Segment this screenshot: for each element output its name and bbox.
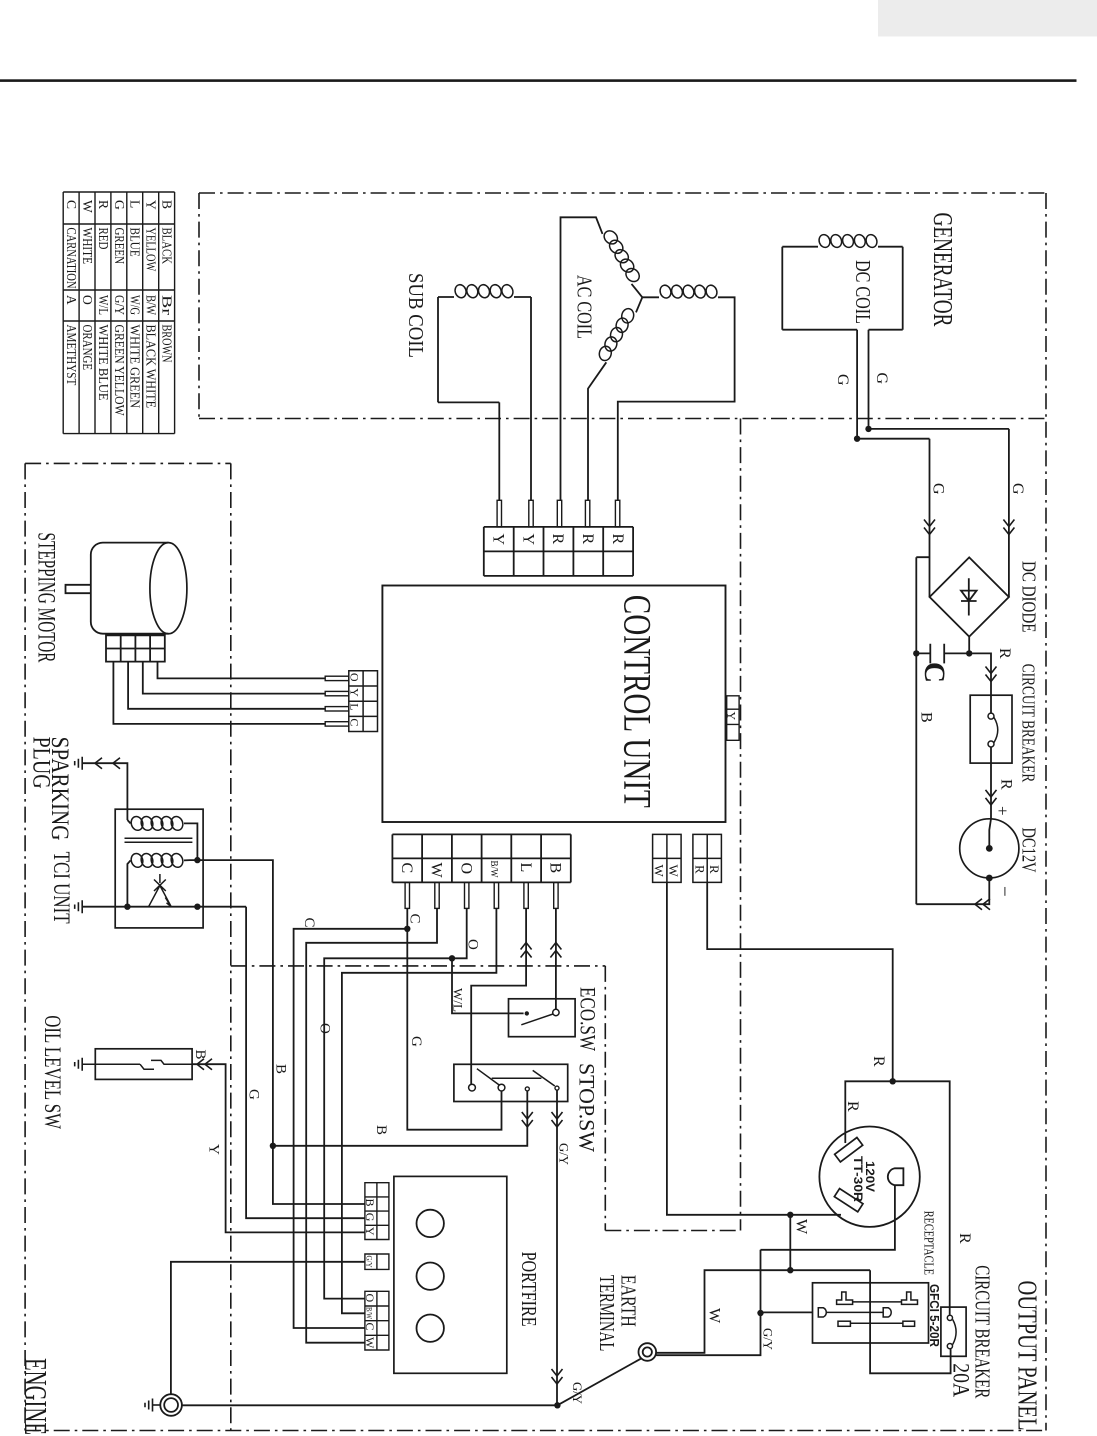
svg-text:W: W bbox=[706, 1308, 723, 1324]
wire color legend table grid bbox=[63, 192, 174, 434]
svg-text:G: G bbox=[929, 483, 946, 495]
inductor ac coil winding 3 bbox=[620, 307, 635, 324]
svg-text:BLUE: BLUE bbox=[128, 228, 143, 257]
svg-text:PORTFIRE: PORTFIRE bbox=[517, 1252, 541, 1327]
header rule bbox=[0, 79, 1077, 82]
svg-text:L: L bbox=[128, 200, 143, 208]
svg-text:B/W: B/W bbox=[144, 295, 159, 315]
svg-text:C: C bbox=[918, 662, 951, 683]
oil level sw ground bbox=[75, 1058, 83, 1071]
svg-text:AC COIL: AC COIL bbox=[573, 275, 596, 339]
wire bridge to breaker bbox=[969, 653, 991, 713]
svg-text:C: C bbox=[301, 918, 317, 928]
wire W down bbox=[789, 1215, 791, 1270]
junction bbox=[449, 955, 455, 961]
gfci slot rect bbox=[838, 1321, 850, 1326]
svg-text:20A: 20A bbox=[949, 1363, 974, 1397]
gfci D link bbox=[826, 1311, 883, 1313]
legend table text bbox=[64, 200, 175, 416]
wire B to eco switch bbox=[555, 908, 557, 1009]
wire star point to winding 3 bbox=[636, 297, 642, 312]
svg-text:RECEPTACLE: RECEPTACLE bbox=[921, 1211, 936, 1275]
svg-text:Y: Y bbox=[144, 200, 159, 210]
junction bbox=[194, 857, 200, 863]
breaker contact bbox=[988, 713, 994, 719]
ac coil winding 2 lead wire bbox=[618, 297, 735, 500]
oil level sw box bbox=[95, 1049, 192, 1080]
stop switch box bbox=[454, 1064, 568, 1101]
wire R hot bbox=[707, 882, 893, 1081]
breaker contact bbox=[988, 741, 994, 747]
engine ground terminal bbox=[160, 1394, 182, 1416]
svg-text:CARNATION: CARNATION bbox=[64, 228, 79, 289]
breaker 20A box bbox=[941, 1307, 966, 1356]
svg-text:CIRCUIT BREAKER: CIRCUIT BREAKER bbox=[1018, 664, 1038, 782]
junction bbox=[194, 904, 200, 910]
breaker arc bbox=[953, 1320, 956, 1345]
junction bbox=[865, 426, 871, 432]
breaker arc bbox=[994, 718, 998, 743]
junction bbox=[787, 1267, 793, 1273]
svg-text:R: R bbox=[549, 534, 566, 545]
engine block border bbox=[25, 463, 231, 1430]
svg-text:R: R bbox=[996, 648, 1013, 659]
connector Y (right side) bbox=[727, 696, 739, 741]
svg-text:R: R bbox=[844, 1101, 861, 1112]
wire O bbox=[324, 908, 467, 1298]
sub coil box bbox=[438, 297, 531, 500]
wire bridge output bbox=[968, 637, 970, 654]
bottom dash-dot border bbox=[25, 1430, 1046, 1432]
dc circuit breaker box bbox=[970, 695, 1012, 763]
svg-text:L: L bbox=[517, 863, 534, 873]
svg-text:A: A bbox=[64, 295, 79, 305]
sparking plug wire bbox=[82, 763, 127, 820]
earth terminal bbox=[639, 1343, 657, 1361]
wire R to receptacle and breaker bbox=[845, 1081, 949, 1315]
portfire hole bbox=[417, 1263, 444, 1290]
gfci slot T bbox=[837, 1292, 853, 1304]
svg-text:R: R bbox=[692, 865, 707, 874]
svg-text:Y: Y bbox=[206, 1144, 222, 1155]
svg-text:EARTH: EARTH bbox=[617, 1275, 641, 1327]
svg-text:O: O bbox=[363, 1294, 377, 1303]
tci primary coil bbox=[129, 815, 144, 832]
wire G right to bridge bbox=[1008, 429, 1010, 597]
wire receptacle ground bbox=[761, 1185, 895, 1250]
eco switch contact bbox=[553, 1009, 559, 1015]
svg-text:O: O bbox=[457, 863, 474, 875]
engine ground symbol bbox=[145, 1399, 153, 1412]
stop switch lever bbox=[477, 1069, 499, 1085]
svg-text:G: G bbox=[246, 1089, 262, 1100]
arrow bbox=[924, 520, 935, 535]
svg-text:BROWN: BROWN bbox=[160, 325, 175, 363]
wire G left to bridge bbox=[929, 439, 931, 597]
svg-text:C: C bbox=[398, 863, 415, 874]
junction bbox=[554, 1402, 560, 1408]
stop switch contact bbox=[498, 1084, 505, 1091]
ac coil winding 3 lead wire bbox=[588, 362, 606, 500]
svg-text:B: B bbox=[273, 1064, 289, 1074]
wire dc12v negative bbox=[916, 878, 989, 904]
label SPARKING PLUG bbox=[28, 737, 76, 841]
svg-text:WHITE BLUE: WHITE BLUE bbox=[96, 325, 111, 401]
connector OBWCW box bbox=[365, 1291, 389, 1350]
svg-text:G: G bbox=[112, 200, 127, 210]
svg-text:DC COIL: DC COIL bbox=[851, 260, 874, 324]
connector YYRRR box bbox=[484, 527, 633, 576]
stop switch contact bbox=[469, 1084, 476, 1091]
stepping motor wires bbox=[113, 662, 325, 724]
junction bbox=[890, 1078, 896, 1084]
svg-text:Y: Y bbox=[363, 1227, 377, 1236]
svg-text:YELLOW: YELLOW bbox=[144, 228, 159, 272]
wire dc coil right G bbox=[869, 330, 1009, 429]
arrow bbox=[521, 943, 532, 958]
svg-text:GREEN YELLOW: GREEN YELLOW bbox=[112, 325, 127, 416]
svg-text:G/Y: G/Y bbox=[365, 1256, 375, 1268]
svg-text:PLUG: PLUG bbox=[28, 737, 57, 789]
connector GY box bbox=[365, 1254, 389, 1269]
svg-text:R: R bbox=[956, 1233, 973, 1244]
switch block border bbox=[231, 419, 741, 1231]
dc coil box bbox=[782, 247, 902, 330]
svg-text:SUB COIL: SUB COIL bbox=[404, 273, 427, 358]
breaker contact bbox=[947, 1344, 952, 1349]
svg-text:W/L: W/L bbox=[451, 988, 466, 1012]
svg-text:ENGINE: ENGINE bbox=[18, 1358, 53, 1435]
svg-text:TERMINAL: TERMINAL bbox=[595, 1275, 619, 1352]
sparking plug ground bbox=[75, 757, 83, 770]
arrow bbox=[197, 1059, 212, 1070]
stop switch contact bbox=[555, 1086, 559, 1090]
svg-text:B: B bbox=[918, 712, 935, 723]
svg-text:B/W: B/W bbox=[488, 861, 500, 879]
tci ground wire bbox=[82, 906, 246, 908]
svg-text:OUTPUT PANEL: OUTPUT PANEL bbox=[1013, 1281, 1043, 1431]
svg-text:GREEN: GREEN bbox=[112, 228, 127, 265]
dc12v outlet circle bbox=[960, 819, 1019, 878]
svg-text:ORANGE: ORANGE bbox=[80, 325, 95, 371]
arrow bbox=[986, 790, 997, 805]
tci secondary leads bbox=[127, 860, 197, 907]
svg-text:G: G bbox=[834, 374, 851, 386]
svg-text:WHITE GREEN: WHITE GREEN bbox=[128, 325, 143, 409]
svg-text:W/G: W/G bbox=[128, 295, 143, 315]
gfci T link bbox=[853, 1301, 902, 1303]
svg-text:AMETHYST: AMETHYST bbox=[64, 325, 79, 386]
wire G tci to portfire bbox=[246, 907, 365, 1218]
junction bbox=[854, 436, 860, 442]
connector OYLC box bbox=[349, 671, 378, 732]
eco switch lever bbox=[521, 1014, 553, 1025]
capacitor C bbox=[916, 644, 969, 664]
wire neutral run bbox=[656, 1270, 870, 1353]
wire C to stop switch bbox=[407, 929, 501, 1130]
breaker contact bbox=[947, 1315, 952, 1320]
wire W/L to eco switch bbox=[452, 958, 524, 1013]
tci trigger symbol bbox=[149, 874, 172, 907]
connector BGY box bbox=[365, 1183, 389, 1240]
junction bbox=[966, 650, 972, 656]
wire winding1 to star point bbox=[632, 284, 643, 297]
motor shaft bbox=[66, 585, 91, 593]
arrow bbox=[975, 899, 990, 910]
svg-text:G/Y: G/Y bbox=[761, 1328, 776, 1351]
wire G/Y from stop switch bbox=[556, 1090, 558, 1405]
svg-text:GENERATOR: GENERATOR bbox=[928, 213, 958, 327]
svg-text:G/Y: G/Y bbox=[557, 1143, 572, 1166]
connector RR bbox=[693, 834, 722, 882]
portfire hole bbox=[417, 1315, 444, 1342]
arrow bbox=[113, 758, 120, 769]
svg-text:GFCI 5-20R: GFCI 5-20R bbox=[927, 1284, 942, 1348]
wire G/Y earth bbox=[656, 1250, 760, 1355]
connector WW bbox=[653, 834, 682, 882]
wire into dc12v bbox=[989, 819, 991, 849]
wire W bbox=[306, 908, 437, 1342]
eco switch box bbox=[509, 999, 576, 1037]
engine ground stub bbox=[153, 1404, 161, 1406]
svg-text:WHITE: WHITE bbox=[80, 228, 95, 265]
svg-text:DC12V: DC12V bbox=[1017, 828, 1039, 873]
receptacle circle bbox=[819, 1127, 919, 1227]
svg-text:R: R bbox=[998, 779, 1015, 790]
svg-text:G/Y: G/Y bbox=[570, 1382, 585, 1405]
svg-text:B/W: B/W bbox=[365, 1307, 375, 1319]
wire neutral to breaker bbox=[870, 1270, 951, 1373]
connector CWOBWLB pins bbox=[405, 882, 558, 908]
connector CWOBWLB box bbox=[392, 834, 570, 882]
oil level switch bbox=[82, 1060, 192, 1069]
wire B tci to portfire bbox=[197, 860, 365, 1204]
svg-text:ECO.SW: ECO.SW bbox=[576, 987, 601, 1051]
wire breaker to dc12v bbox=[990, 747, 992, 819]
stop switch lever bbox=[533, 1070, 555, 1086]
generator block border bbox=[199, 193, 1046, 419]
wire GY to engine ground bbox=[171, 1262, 365, 1394]
eco switch pole bbox=[525, 1011, 529, 1015]
wire W neutral bbox=[667, 882, 841, 1214]
tci core bbox=[125, 838, 193, 842]
svg-text:W: W bbox=[363, 1337, 377, 1349]
svg-text:W/L: W/L bbox=[96, 295, 111, 315]
svg-text:BLACK: BLACK bbox=[160, 228, 175, 265]
svg-text:C: C bbox=[407, 914, 423, 924]
stop switch contact bbox=[525, 1087, 529, 1091]
wire gfci ground lead bbox=[761, 1311, 813, 1313]
svg-text:STOP.SW: STOP.SW bbox=[575, 1063, 600, 1152]
svg-text:CONTROL UNIT: CONTROL UNIT bbox=[615, 595, 659, 808]
svg-text:TT-30R: TT-30R bbox=[851, 1156, 865, 1202]
svg-text:B: B bbox=[192, 1050, 208, 1060]
svg-text:DC DIODE: DC DIODE bbox=[1017, 561, 1039, 633]
svg-text:B: B bbox=[373, 1125, 389, 1135]
arrow bbox=[1003, 520, 1014, 535]
svg-text:W: W bbox=[428, 863, 445, 879]
engine ground bus bbox=[182, 1404, 558, 1406]
right page dash-dot border bbox=[1045, 193, 1047, 1431]
arrow bbox=[550, 943, 561, 958]
svg-text:C: C bbox=[363, 1323, 377, 1331]
svg-text:OIL LEVEL SW: OIL LEVEL SW bbox=[40, 1015, 65, 1129]
control unit box bbox=[382, 586, 725, 823]
svg-text:R: R bbox=[609, 534, 626, 545]
arrow bbox=[552, 1112, 563, 1127]
gfci hole D bbox=[883, 1308, 891, 1317]
connector YYRRR pins bbox=[497, 500, 620, 527]
svg-text:R: R bbox=[707, 865, 722, 874]
svg-text:R: R bbox=[579, 534, 596, 545]
tci ground bbox=[75, 900, 83, 913]
svg-text:Y: Y bbox=[725, 712, 739, 721]
arrow bbox=[95, 758, 102, 769]
svg-text:B: B bbox=[160, 200, 175, 209]
svg-text:W: W bbox=[666, 865, 681, 878]
gfci slot T bbox=[902, 1292, 918, 1304]
svg-text:C: C bbox=[348, 718, 362, 726]
svg-text:G: G bbox=[363, 1213, 377, 1222]
label EARTH TERMINAL bbox=[595, 1275, 641, 1352]
junction bbox=[270, 1143, 276, 1149]
svg-text:W: W bbox=[793, 1219, 810, 1235]
dc12v shell pin bbox=[986, 875, 993, 882]
receptacle neutral slot bbox=[834, 1189, 863, 1212]
svg-text:L: L bbox=[348, 703, 362, 710]
stop switch link bar bbox=[492, 1077, 542, 1079]
arrow bbox=[552, 1369, 563, 1384]
wire stop sw kill bbox=[273, 1091, 527, 1146]
tci primary leads bbox=[127, 820, 197, 860]
svg-text:G/Y: G/Y bbox=[112, 295, 127, 315]
junction bbox=[787, 1212, 793, 1218]
inductor ac coil winding 2 bbox=[658, 284, 672, 300]
wire L to stop switch bbox=[471, 908, 526, 1084]
wire star point to winding 2 bbox=[642, 296, 659, 298]
oil level sw wire Y bbox=[192, 1064, 365, 1232]
stepping motor body bbox=[91, 543, 169, 634]
svg-text:R: R bbox=[96, 200, 111, 209]
svg-text:B: B bbox=[363, 1199, 377, 1207]
svg-text:+: + bbox=[993, 806, 1012, 816]
gfci slot rect bbox=[903, 1321, 915, 1326]
tci secondary coil bbox=[129, 852, 144, 869]
gfci rect link bbox=[850, 1322, 903, 1324]
arrow bbox=[986, 667, 997, 682]
motor terminal grid bbox=[106, 635, 165, 661]
receptacle ground hole bbox=[888, 1168, 904, 1185]
inductor ac coil winding 1 bbox=[602, 228, 621, 246]
svg-text:B: B bbox=[547, 863, 564, 874]
svg-text:BLACK WHITE: BLACK WHITE bbox=[144, 325, 159, 409]
header gray box bbox=[878, 0, 1097, 37]
svg-text:RED: RED bbox=[96, 228, 111, 250]
svg-text:G: G bbox=[873, 373, 890, 385]
portfire hole bbox=[417, 1210, 444, 1237]
wire to earth terminal bbox=[557, 1358, 641, 1405]
receptacle hot slot bbox=[835, 1138, 863, 1162]
svg-text:Y: Y bbox=[519, 534, 536, 546]
svg-text:W: W bbox=[651, 865, 666, 878]
wire C bbox=[294, 908, 408, 1328]
svg-text:Y: Y bbox=[489, 534, 506, 546]
svg-text:Y: Y bbox=[348, 688, 362, 697]
dc12v center pin bbox=[986, 845, 993, 852]
inductor dc coil bbox=[817, 233, 831, 249]
svg-text:R: R bbox=[870, 1056, 887, 1067]
gfci hole D bbox=[818, 1308, 826, 1317]
arrow bbox=[522, 1112, 533, 1127]
junction bbox=[124, 904, 130, 910]
svg-text:Br: Br bbox=[160, 295, 175, 316]
svg-text:TCI UNIT: TCI UNIT bbox=[48, 852, 74, 924]
svg-text:G: G bbox=[1009, 483, 1026, 495]
portfire box bbox=[394, 1176, 507, 1373]
stepping motor face bbox=[150, 543, 187, 634]
svg-text:C: C bbox=[64, 200, 79, 209]
svg-text:O: O bbox=[348, 673, 362, 682]
wire B/W bbox=[342, 908, 497, 1313]
ac coil left lead wire bbox=[561, 217, 603, 500]
svg-text:STEPPING MOTOR: STEPPING MOTOR bbox=[33, 533, 62, 664]
junction bbox=[913, 650, 919, 656]
inductor sub coil bbox=[453, 283, 467, 299]
junction bbox=[404, 926, 410, 932]
svg-text:W: W bbox=[80, 200, 95, 213]
diode bbox=[961, 578, 977, 615]
gfci box bbox=[813, 1283, 929, 1343]
tci unit box bbox=[115, 809, 203, 928]
svg-text:G: G bbox=[408, 1036, 424, 1047]
junction bbox=[757, 1310, 763, 1316]
svg-text:O: O bbox=[317, 1023, 333, 1034]
svg-text:−: − bbox=[994, 886, 1015, 897]
wire B jog bbox=[916, 557, 929, 904]
wire dc coil left G bbox=[857, 330, 929, 439]
svg-text:O: O bbox=[465, 939, 481, 950]
connector OYLC pins bbox=[325, 676, 349, 726]
dc diode bridge bbox=[930, 557, 1009, 636]
svg-text:O: O bbox=[80, 295, 95, 305]
